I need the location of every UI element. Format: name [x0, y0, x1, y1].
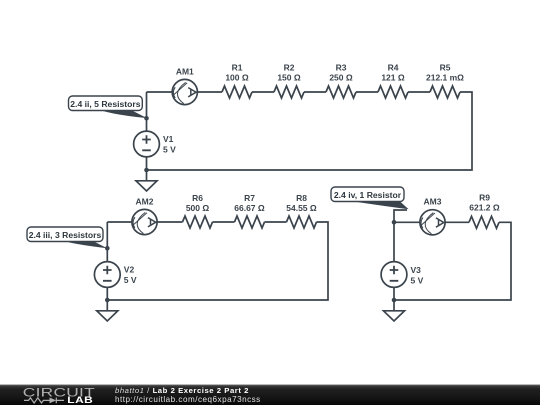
svg-text:V1: V1 — [163, 134, 174, 144]
svg-text:621.2 Ω: 621.2 Ω — [469, 203, 500, 213]
svg-text:bhatto1 / Lab 2 Exercise 2 Par: bhatto1 / Lab 2 Exercise 2 Part 2 — [115, 386, 249, 395]
svg-text:212.1 mΩ: 212.1 mΩ — [426, 73, 464, 83]
svg-text:5 V: 5 V — [163, 145, 176, 155]
svg-text:http://circuitlab.com/ceq6xpa7: http://circuitlab.com/ceq6xpa73ncss — [115, 395, 261, 404]
svg-text:250 Ω: 250 Ω — [329, 73, 353, 83]
svg-text:R3: R3 — [336, 63, 347, 73]
svg-text:5 V: 5 V — [411, 275, 424, 285]
svg-text:2.4 ii, 5 Resistors: 2.4 ii, 5 Resistors — [70, 99, 140, 109]
svg-text:R4: R4 — [388, 63, 399, 73]
svg-text:121 Ω: 121 Ω — [381, 73, 405, 83]
svg-text:V3: V3 — [411, 265, 422, 275]
svg-text:R2: R2 — [284, 63, 295, 73]
svg-text:2.4 iii, 3 Resistors: 2.4 iii, 3 Resistors — [29, 230, 102, 240]
svg-text:100 Ω: 100 Ω — [225, 73, 249, 83]
svg-text:AM2: AM2 — [136, 196, 154, 206]
svg-text:150 Ω: 150 Ω — [277, 73, 301, 83]
svg-text:500 Ω: 500 Ω — [186, 203, 210, 213]
svg-text:R5: R5 — [440, 63, 451, 73]
svg-text:2.4 iv, 1 Resistor: 2.4 iv, 1 Resistor — [334, 190, 402, 200]
svg-text:54.55 Ω: 54.55 Ω — [286, 203, 317, 213]
svg-text:R8: R8 — [296, 193, 307, 203]
svg-text:V2: V2 — [124, 264, 135, 274]
svg-text:AM3: AM3 — [424, 196, 442, 206]
svg-text:AM1: AM1 — [176, 66, 194, 76]
svg-text:LAB: LAB — [67, 395, 93, 405]
svg-text:R1: R1 — [232, 63, 243, 73]
svg-text:R9: R9 — [479, 193, 490, 203]
svg-text:5 V: 5 V — [124, 275, 137, 285]
svg-text:R6: R6 — [192, 193, 203, 203]
svg-text:66.67 Ω: 66.67 Ω — [234, 203, 265, 213]
svg-text:R7: R7 — [244, 193, 255, 203]
